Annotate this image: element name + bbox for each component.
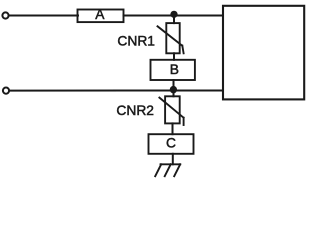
svg-text:C: C: [166, 136, 176, 151]
wire box B to node 2: [173, 80, 175, 91]
wire node 2 to CNR2: [173, 91, 175, 96]
svg-text:CNR2: CNR2: [116, 103, 154, 118]
svg-text:CNR1: CNR1: [117, 34, 155, 49]
wire node 2 to right block: [174, 90, 224, 92]
svg-text:B: B: [170, 62, 179, 77]
svg-text:A: A: [95, 7, 105, 22]
wire J2 to node 2: [10, 90, 174, 92]
varistor CNR1: [158, 23, 184, 53]
box C: [149, 134, 194, 154]
wire CNR2 to box C: [172, 123, 174, 134]
node 1 (junction dot): [170, 11, 177, 18]
wire box A to node 1: [124, 15, 175, 17]
varistor CNR2: [159, 96, 183, 125]
box A: [78, 10, 124, 23]
ground (chassis): [155, 164, 180, 176]
node 2 (junction dot): [170, 86, 177, 93]
wire J1 to box A: [9, 15, 78, 17]
wire node 1 to right block: [175, 15, 224, 17]
wire box C to ground: [172, 154, 174, 165]
protected equipment block U1: [223, 6, 304, 100]
wire CNR1 to box B: [173, 53, 175, 60]
terminal J2 (bottom-left input): [3, 88, 9, 94]
box B: [151, 60, 195, 80]
terminal J1 (top-left input): [2, 12, 8, 18]
wire node 1 to CNR1: [173, 16, 175, 23]
